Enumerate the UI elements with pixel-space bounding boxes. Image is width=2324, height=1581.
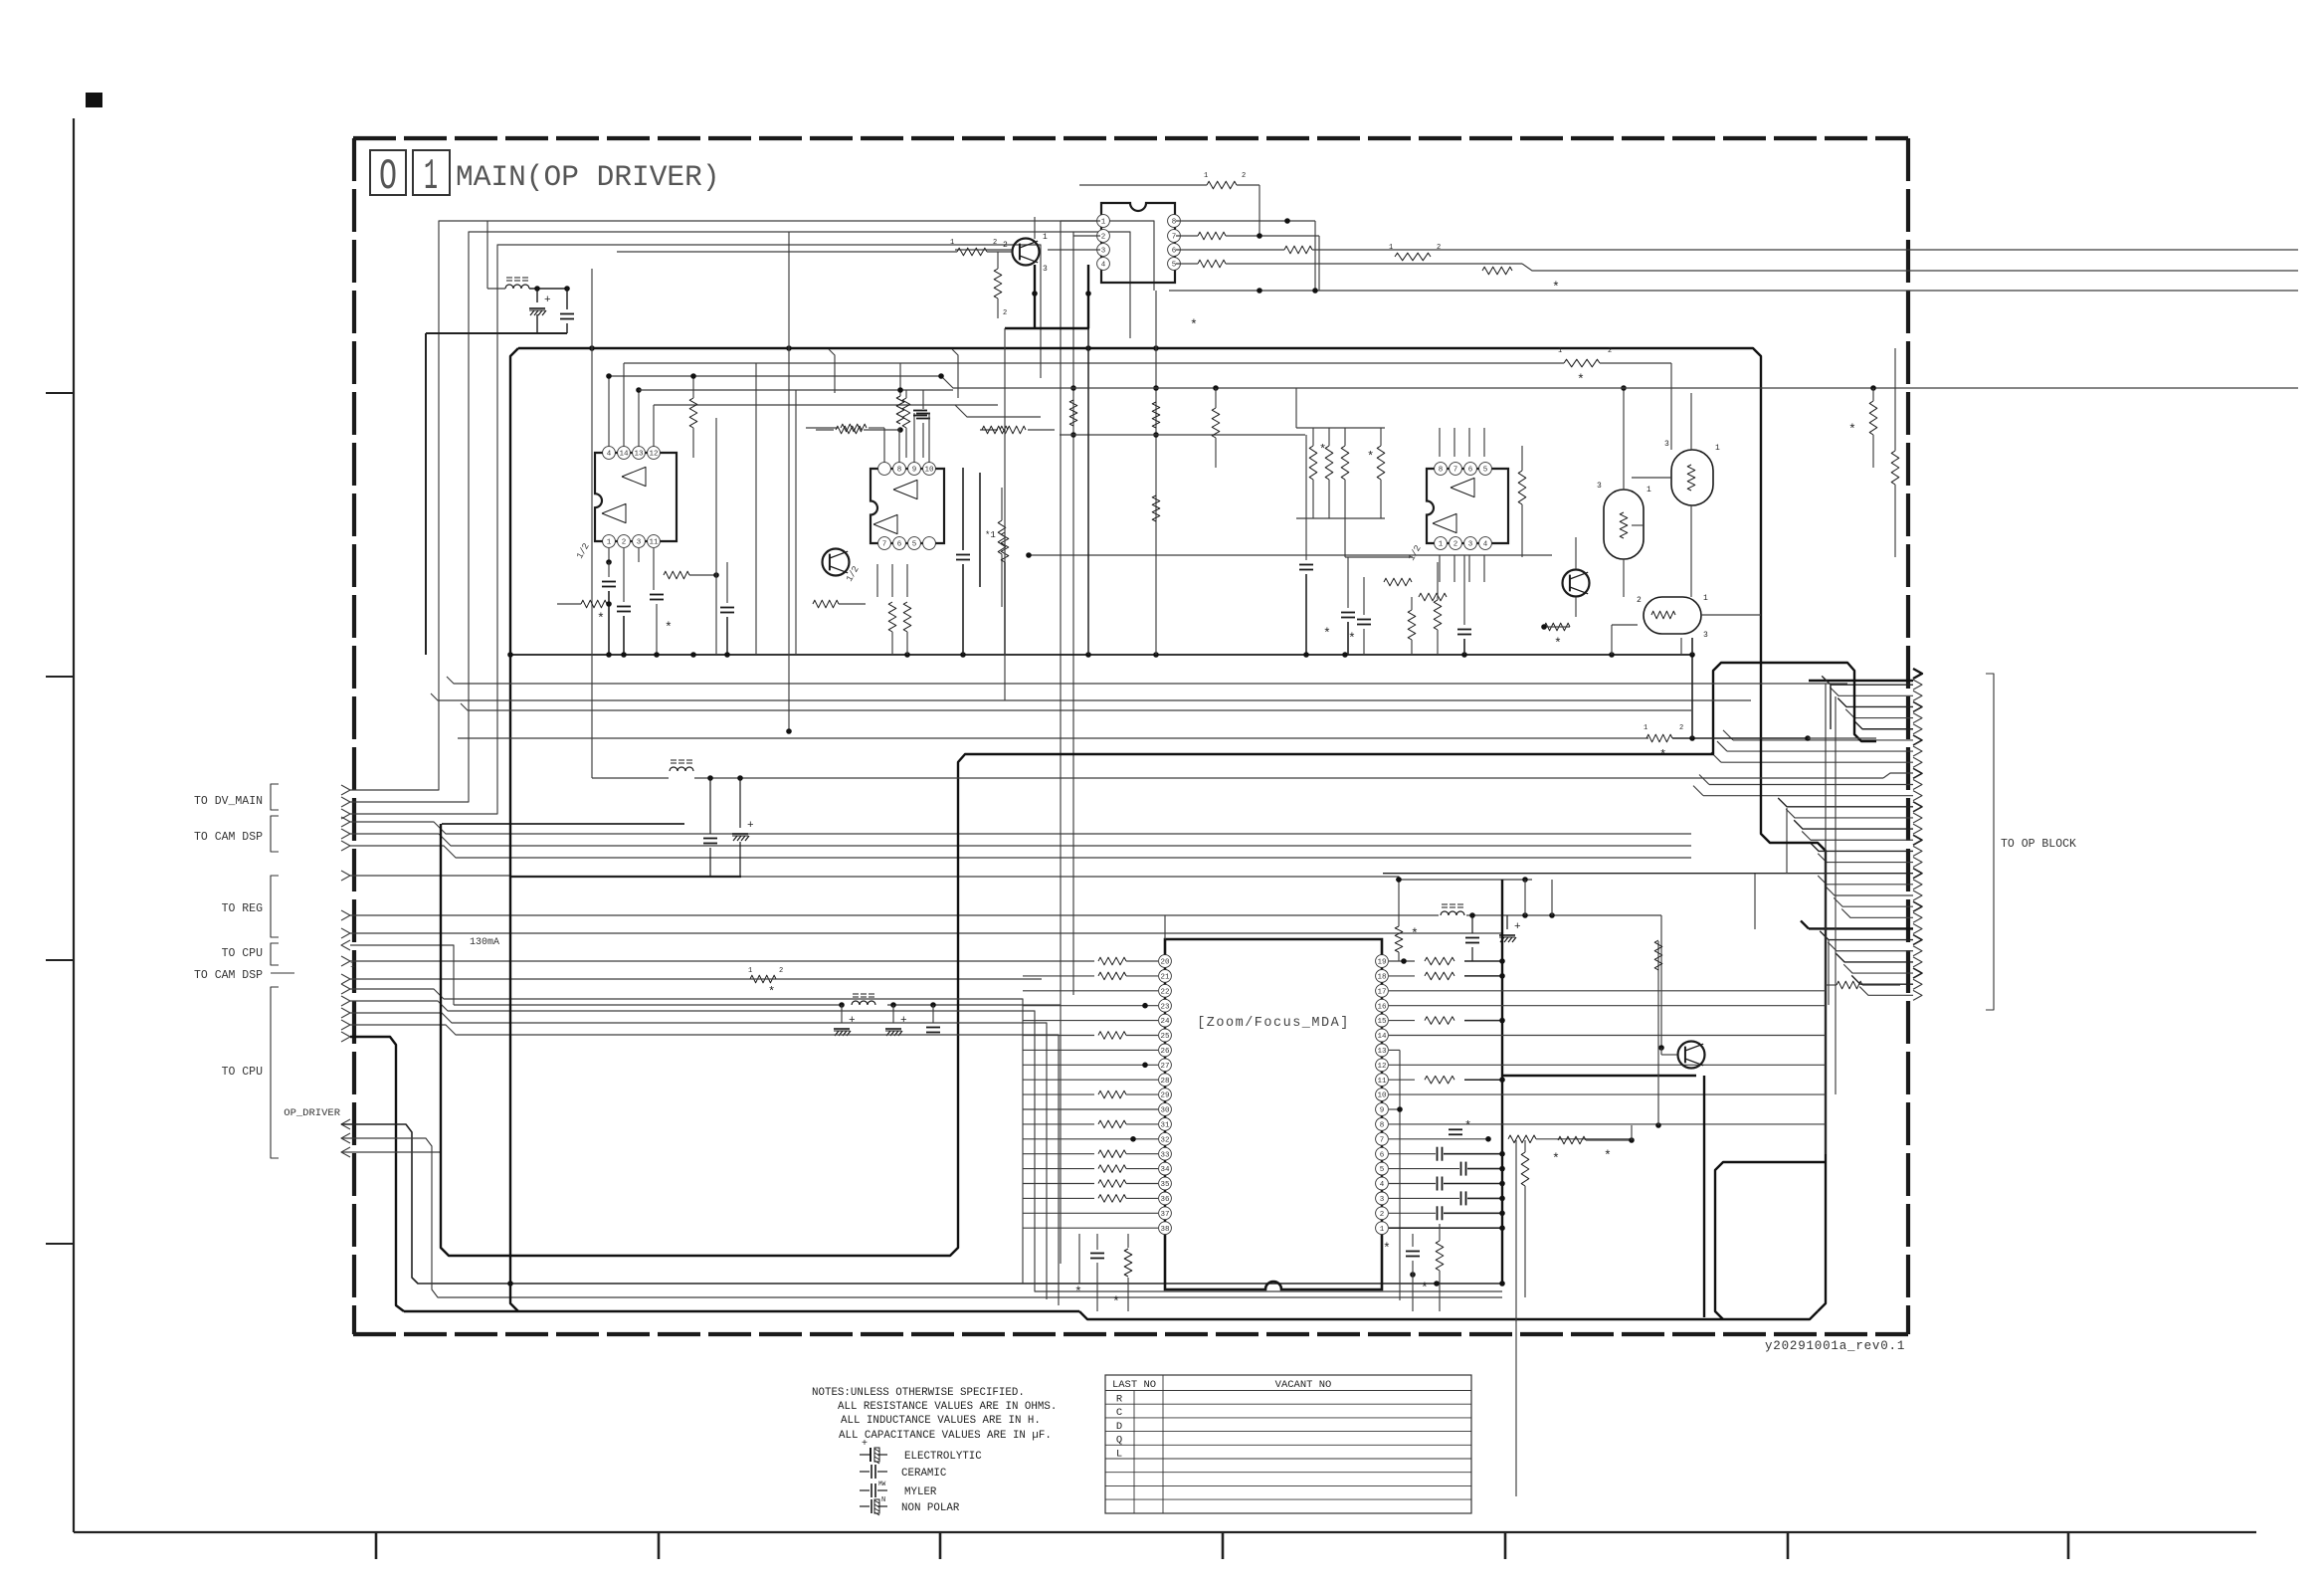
svg-text:*: * [1074, 1285, 1082, 1299]
svg-text:VACANT NO: VACANT NO [1275, 1379, 1332, 1391]
svg-text:Q: Q [1116, 1435, 1122, 1447]
svg-text:6: 6 [1172, 248, 1177, 256]
svg-text:+: + [862, 1439, 868, 1450]
svg-text:*: * [665, 620, 673, 635]
svg-text:TO CPU: TO CPU [222, 1066, 264, 1079]
svg-text:TO REG: TO REG [222, 902, 264, 915]
svg-text:+: + [1514, 921, 1521, 933]
svg-text:2: 2 [1101, 234, 1106, 242]
svg-text:26: 26 [1160, 1048, 1170, 1056]
svg-text:1: 1 [350, 961, 355, 970]
svg-text:38: 38 [1160, 1226, 1169, 1234]
svg-text:+: + [849, 1015, 856, 1027]
svg-text:7: 7 [1172, 234, 1177, 242]
svg-text:*: * [1421, 1281, 1429, 1295]
svg-text:8: 8 [897, 467, 902, 475]
svg-text:3: 3 [637, 539, 642, 547]
svg-text:*: * [1319, 443, 1326, 457]
svg-text:2: 2 [1380, 1211, 1385, 1219]
svg-text:C: C [1116, 1407, 1122, 1419]
svg-text:3: 3 [1101, 248, 1106, 256]
svg-text:4: 4 [607, 451, 612, 459]
svg-text:*: * [1190, 317, 1198, 332]
svg-text:MYLER: MYLER [904, 1486, 937, 1498]
svg-text:13: 13 [1377, 1048, 1387, 1056]
svg-text:3: 3 [1468, 541, 1473, 549]
svg-text:5: 5 [912, 541, 917, 549]
svg-text:8: 8 [1172, 219, 1177, 227]
svg-text:*: * [1112, 1294, 1120, 1309]
svg-text:3: 3 [1703, 631, 1708, 640]
svg-text:8: 8 [1380, 1122, 1385, 1130]
svg-text:10: 10 [924, 467, 934, 475]
svg-text:32: 32 [1160, 1136, 1169, 1144]
svg-text:130mA: 130mA [470, 937, 499, 948]
svg-text:TO CAM DSP: TO CAM DSP [194, 969, 263, 982]
svg-text:2: 2 [1637, 596, 1642, 605]
svg-text:*: * [1348, 631, 1356, 646]
svg-text:34: 34 [1160, 1166, 1170, 1174]
svg-text:14: 14 [619, 451, 629, 459]
svg-text:1: 1 [1439, 541, 1444, 549]
svg-text:7: 7 [1453, 467, 1458, 475]
svg-text:17: 17 [1377, 988, 1386, 996]
svg-text:*: * [768, 985, 775, 999]
svg-text:37: 37 [1160, 1211, 1169, 1219]
svg-text:*1: *1 [985, 530, 996, 540]
svg-text:6: 6 [1380, 1151, 1385, 1159]
svg-text:1: 1 [1703, 594, 1708, 603]
svg-text:6: 6 [1468, 467, 1473, 475]
svg-text:28: 28 [1160, 1078, 1169, 1086]
svg-text:3: 3 [1043, 265, 1048, 274]
svg-text:R: R [1116, 1394, 1123, 1406]
svg-text:13: 13 [634, 451, 644, 459]
svg-text:ELECTROLYTIC: ELECTROLYTIC [904, 1451, 982, 1463]
svg-text:N: N [881, 1496, 885, 1504]
svg-text:*: * [1464, 1119, 1471, 1133]
svg-text:NON POLAR: NON POLAR [901, 1502, 960, 1514]
svg-text:1: 1 [1043, 233, 1048, 242]
svg-text:*: * [597, 611, 605, 626]
svg-text:ALL CAPACITANCE VALUES ARE IN: ALL CAPACITANCE VALUES ARE IN µF. [839, 1430, 1052, 1442]
svg-text:ALL INDUCTANCE VALUES ARE IN H: ALL INDUCTANCE VALUES ARE IN H. [841, 1415, 1041, 1427]
svg-text:+: + [544, 295, 551, 306]
svg-text:1: 1 [1380, 1226, 1385, 1234]
svg-text:22: 22 [1160, 988, 1169, 996]
svg-text:5: 5 [1483, 467, 1488, 475]
svg-text:4: 4 [1483, 541, 1488, 549]
svg-text:5: 5 [1172, 262, 1177, 270]
svg-text:6: 6 [897, 541, 902, 549]
svg-text:*: * [1552, 1151, 1560, 1166]
svg-text:*: * [1367, 450, 1374, 464]
svg-text:2: 2 [1453, 541, 1458, 549]
svg-text:2: 2 [779, 967, 783, 975]
svg-text:*: * [1604, 1148, 1612, 1163]
svg-text:2: 2 [1437, 244, 1441, 252]
svg-text:*: * [1577, 372, 1585, 387]
svg-text:3: 3 [1664, 440, 1669, 449]
svg-text:+: + [900, 1015, 907, 1027]
svg-text:*: * [1411, 926, 1419, 941]
svg-text:*: * [1659, 748, 1666, 762]
svg-text:+: + [747, 820, 754, 832]
svg-text:*: * [1383, 1241, 1391, 1256]
svg-text:30: 30 [1160, 1107, 1170, 1115]
svg-text:2: 2 [993, 239, 997, 247]
svg-text:4: 4 [1101, 262, 1106, 270]
svg-text:NOTES:UNLESS OTHERWISE SPECIFI: NOTES:UNLESS OTHERWISE SPECIFIED. [812, 1387, 1025, 1399]
svg-text:35: 35 [1160, 1181, 1170, 1189]
svg-text:1: 1 [1644, 724, 1647, 732]
svg-text:9: 9 [1380, 1107, 1385, 1115]
svg-text:MAIN(OP DRIVER): MAIN(OP DRIVER) [456, 160, 720, 194]
svg-text:20: 20 [1160, 959, 1170, 967]
svg-text:7: 7 [882, 541, 887, 549]
svg-text:L: L [1116, 1448, 1122, 1460]
svg-text:TO CAM DSP: TO CAM DSP [194, 831, 263, 844]
svg-text:1: 1 [1715, 444, 1720, 453]
svg-text:24: 24 [1160, 1018, 1170, 1026]
svg-text:CERAMIC: CERAMIC [901, 1468, 947, 1480]
svg-text:19: 19 [1377, 959, 1386, 967]
svg-text:31: 31 [1160, 1122, 1170, 1130]
svg-text:1: 1 [950, 239, 954, 247]
svg-text:2: 2 [1679, 724, 1683, 732]
svg-text:21: 21 [1160, 974, 1170, 982]
svg-text:TO OP BLOCK: TO OP BLOCK [2001, 838, 2076, 851]
svg-text:8: 8 [1439, 467, 1444, 475]
svg-text:OP_DRIVER: OP_DRIVER [284, 1107, 340, 1119]
svg-text:TO DV_MAIN: TO DV_MAIN [194, 795, 263, 808]
svg-text:11: 11 [649, 539, 659, 547]
svg-text:4: 4 [1380, 1181, 1385, 1189]
svg-text:1: 1 [1389, 244, 1393, 252]
svg-text:23: 23 [1160, 1003, 1170, 1011]
svg-text:1: 1 [1101, 219, 1106, 227]
svg-text:1: 1 [607, 539, 612, 547]
svg-text:11: 11 [1377, 1078, 1387, 1086]
svg-text:D: D [1116, 1421, 1122, 1433]
svg-text:1: 1 [1558, 347, 1562, 355]
svg-text:y20291001a_rev0.1: y20291001a_rev0.1 [1765, 1339, 1905, 1353]
svg-text:TO CPU: TO CPU [222, 947, 264, 960]
svg-text:MW: MW [878, 1481, 886, 1487]
svg-text:2: 2 [1003, 241, 1008, 250]
svg-text:15: 15 [1377, 1018, 1387, 1026]
svg-text:*: * [1554, 636, 1562, 651]
svg-text:ALL RESISTANCE VALUES ARE IN O: ALL RESISTANCE VALUES ARE IN OHMS. [838, 1401, 1057, 1413]
svg-text:12: 12 [1377, 1063, 1386, 1071]
svg-text:*: * [1323, 626, 1331, 641]
svg-text:7: 7 [1380, 1136, 1385, 1144]
svg-text:O: O [379, 152, 397, 202]
svg-text:[Zoom/Focus_MDA]: [Zoom/Focus_MDA] [1197, 1016, 1350, 1031]
svg-text:12: 12 [649, 451, 658, 459]
svg-text:3: 3 [1380, 1196, 1385, 1204]
svg-text:*: * [1848, 422, 1856, 437]
svg-text:9: 9 [912, 467, 917, 475]
svg-text:14: 14 [1377, 1033, 1387, 1041]
svg-text:3: 3 [1597, 482, 1602, 491]
svg-text:29: 29 [1160, 1092, 1169, 1100]
svg-text:2: 2 [622, 539, 627, 547]
svg-text:36: 36 [1160, 1196, 1170, 1204]
svg-text:1: 1 [748, 967, 752, 975]
svg-text:2: 2 [1242, 172, 1246, 180]
svg-text:2: 2 [1003, 309, 1007, 317]
svg-text:25: 25 [1160, 1033, 1170, 1041]
svg-text:1: 1 [1204, 172, 1208, 180]
svg-text:LAST NO: LAST NO [1112, 1379, 1156, 1391]
svg-text:10: 10 [1377, 1092, 1387, 1100]
svg-text:33: 33 [1160, 1151, 1170, 1159]
svg-text:1: 1 [424, 152, 438, 202]
svg-text:1: 1 [1646, 486, 1651, 494]
svg-text:2: 2 [1608, 347, 1612, 355]
svg-text:27: 27 [1160, 1063, 1169, 1071]
svg-text:16: 16 [1377, 1003, 1387, 1011]
svg-text:*: * [1552, 280, 1560, 295]
svg-text:18: 18 [1377, 974, 1386, 982]
svg-text:5: 5 [1380, 1166, 1385, 1174]
